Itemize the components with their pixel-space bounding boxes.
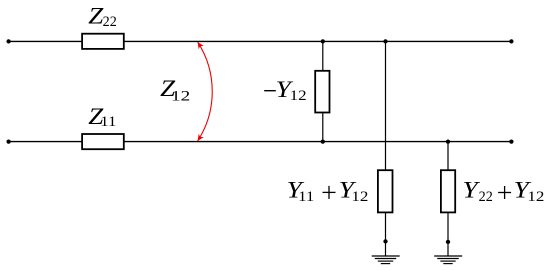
- resistor Z22: [82, 34, 124, 49]
- junction bottom -Y12: [321, 139, 325, 143]
- svg-text:Z: Z: [88, 3, 103, 28]
- label Y22+Y12: [463, 177, 545, 205]
- svg-text:11: 11: [298, 189, 314, 205]
- label Z22: [88, 3, 116, 30]
- ground G2: [434, 256, 462, 264]
- wire vertical branch -Y12: [322, 41, 324, 141]
- svg-text:12: 12: [527, 189, 544, 205]
- junction above ground G2: [446, 240, 450, 244]
- resistor Y11+Y12: [378, 170, 393, 212]
- junction above ground G1: [383, 239, 387, 243]
- svg-text:12: 12: [351, 189, 368, 205]
- label Y11+Y12: [287, 177, 369, 205]
- node terminal bottom-left: [6, 139, 10, 143]
- label Z12: [160, 76, 190, 104]
- node terminal top-left: [6, 39, 10, 43]
- wire top: [9, 40, 512, 42]
- junction top -Y12: [321, 39, 325, 43]
- ground G1: [372, 256, 400, 264]
- svg-text:12: 12: [290, 88, 307, 104]
- svg-text:11: 11: [100, 114, 116, 130]
- svg-text:22: 22: [479, 189, 493, 205]
- junction top Y11 branch: [383, 39, 387, 43]
- label Z11: [88, 104, 116, 130]
- node terminal bottom-right: [509, 139, 513, 143]
- resistor Y22+Y12: [441, 170, 455, 212]
- wire vertical branch Y22+Y12: [447, 142, 449, 256]
- svg-text:22: 22: [103, 14, 117, 30]
- svg-text:12: 12: [171, 89, 190, 105]
- wire vertical branch Y11+Y12: [385, 41, 387, 255]
- label -Y12: [264, 77, 307, 104]
- node terminal top-right: [509, 39, 513, 43]
- resistor Z11: [82, 134, 124, 149]
- junction bottom Y22 branch: [446, 139, 450, 143]
- wire bottom: [9, 141, 512, 143]
- coupling arc Z12: [198, 42, 213, 141]
- resistor -Y12: [315, 71, 329, 113]
